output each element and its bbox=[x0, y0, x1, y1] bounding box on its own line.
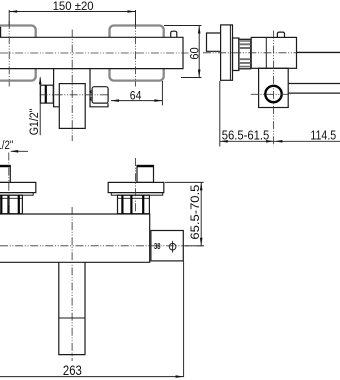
mounting box (bottom view right) bbox=[151, 231, 183, 261]
side vertical centerline bbox=[273, 31, 275, 147]
dimension 60 bbox=[164, 26, 202, 78]
dimension 114.5 bbox=[274, 140, 340, 142]
svg-text:56.5-61.5: 56.5-61.5 bbox=[222, 127, 270, 142]
body division line bbox=[265, 37, 267, 68]
bottom view axis centerline bbox=[0, 245, 204, 247]
svg-text:64: 64 bbox=[130, 89, 142, 103]
dimension 65.5-70.5 bbox=[165, 182, 204, 245]
svg-text:38: 38 bbox=[154, 242, 161, 251]
handle block (front view) bbox=[59, 84, 85, 129]
knurled nut (side view) bbox=[239, 39, 251, 69]
left nut (bottom view) bbox=[0, 195, 22, 214]
svg-text:150 ±20: 150 ±20 bbox=[53, 0, 94, 13]
fitting groove band bbox=[45, 85, 47, 103]
escutcheon left (front view wall plate) bbox=[0, 26, 36, 81]
left flange (bottom view) bbox=[0, 182, 36, 192]
svg-text:G1/2": G1/2" bbox=[27, 109, 41, 136]
wall plate face line bbox=[229, 25, 231, 80]
spout (bottom view) bbox=[59, 262, 85, 354]
right nut (bottom view) bbox=[118, 195, 150, 214]
main centerline (bottom view) bbox=[71, 207, 73, 361]
G1/2 label (hose outlet, front view) bbox=[39, 78, 41, 136]
riser pipe line bbox=[297, 51, 340, 53]
shower arm lines bbox=[288, 84, 340, 94]
hose axis centerline (side view) bbox=[251, 93, 291, 95]
mixer bar body (front view) bbox=[0, 37, 183, 68]
dimension 56.5-61.5 bbox=[220, 81, 274, 147]
hose axis centerline bbox=[40, 94, 110, 96]
hose outlet fitting left (front view) bbox=[41, 85, 54, 103]
cropped fitting edge at left margin bbox=[0, 27, 2, 38]
svg-text:G1/2": G1/2" bbox=[0, 138, 13, 152]
wall plate (side view) bbox=[221, 25, 233, 80]
right flange (bottom view) bbox=[108, 182, 164, 192]
svg-text:65.5-70.5: 65.5-70.5 bbox=[188, 184, 202, 239]
hose connection circle bbox=[265, 86, 281, 102]
side view axis centerline bbox=[203, 52, 297, 54]
left post centerline (bottom view) bbox=[8, 153, 10, 214]
right inlet centerline bbox=[135, 21, 137, 87]
fitting nubs bbox=[91, 91, 93, 100]
valve body (side view) bbox=[251, 37, 296, 68]
svg-text:60: 60 bbox=[187, 47, 201, 59]
mixer bar (bottom view) bbox=[0, 214, 150, 262]
dimension 263 bbox=[0, 261, 184, 377]
outlet fitting right (front view) bbox=[92, 87, 108, 103]
left supply stub (bottom view) bbox=[0, 165, 10, 182]
right supply stub (bottom view) bbox=[137, 165, 154, 182]
neck below bar (front view) bbox=[54, 69, 108, 107]
right post centerline (bottom view) bbox=[135, 158, 137, 214]
escutcheon right (front view wall plate) bbox=[110, 26, 164, 81]
bar axis centerline (front view) bbox=[0, 52, 189, 54]
wall supply elbow (side view) bbox=[207, 33, 221, 51]
main vertical centerline (front view) bbox=[71, 30, 73, 142]
dimension 150 ±20 bbox=[9, 10, 135, 25]
position symbol bbox=[169, 243, 176, 250]
safety button (side view) bbox=[277, 32, 284, 37]
outlet block (side view) bbox=[259, 68, 289, 107]
safety button on bar (front view) bbox=[171, 31, 177, 37]
dimension 64 bbox=[111, 81, 162, 105]
left inlet centerline bbox=[8, 21, 10, 87]
svg-text:263: 263 bbox=[63, 363, 82, 378]
mounting washer (side view) bbox=[233, 38, 239, 71]
svg-text:114.5: 114.5 bbox=[310, 127, 336, 142]
